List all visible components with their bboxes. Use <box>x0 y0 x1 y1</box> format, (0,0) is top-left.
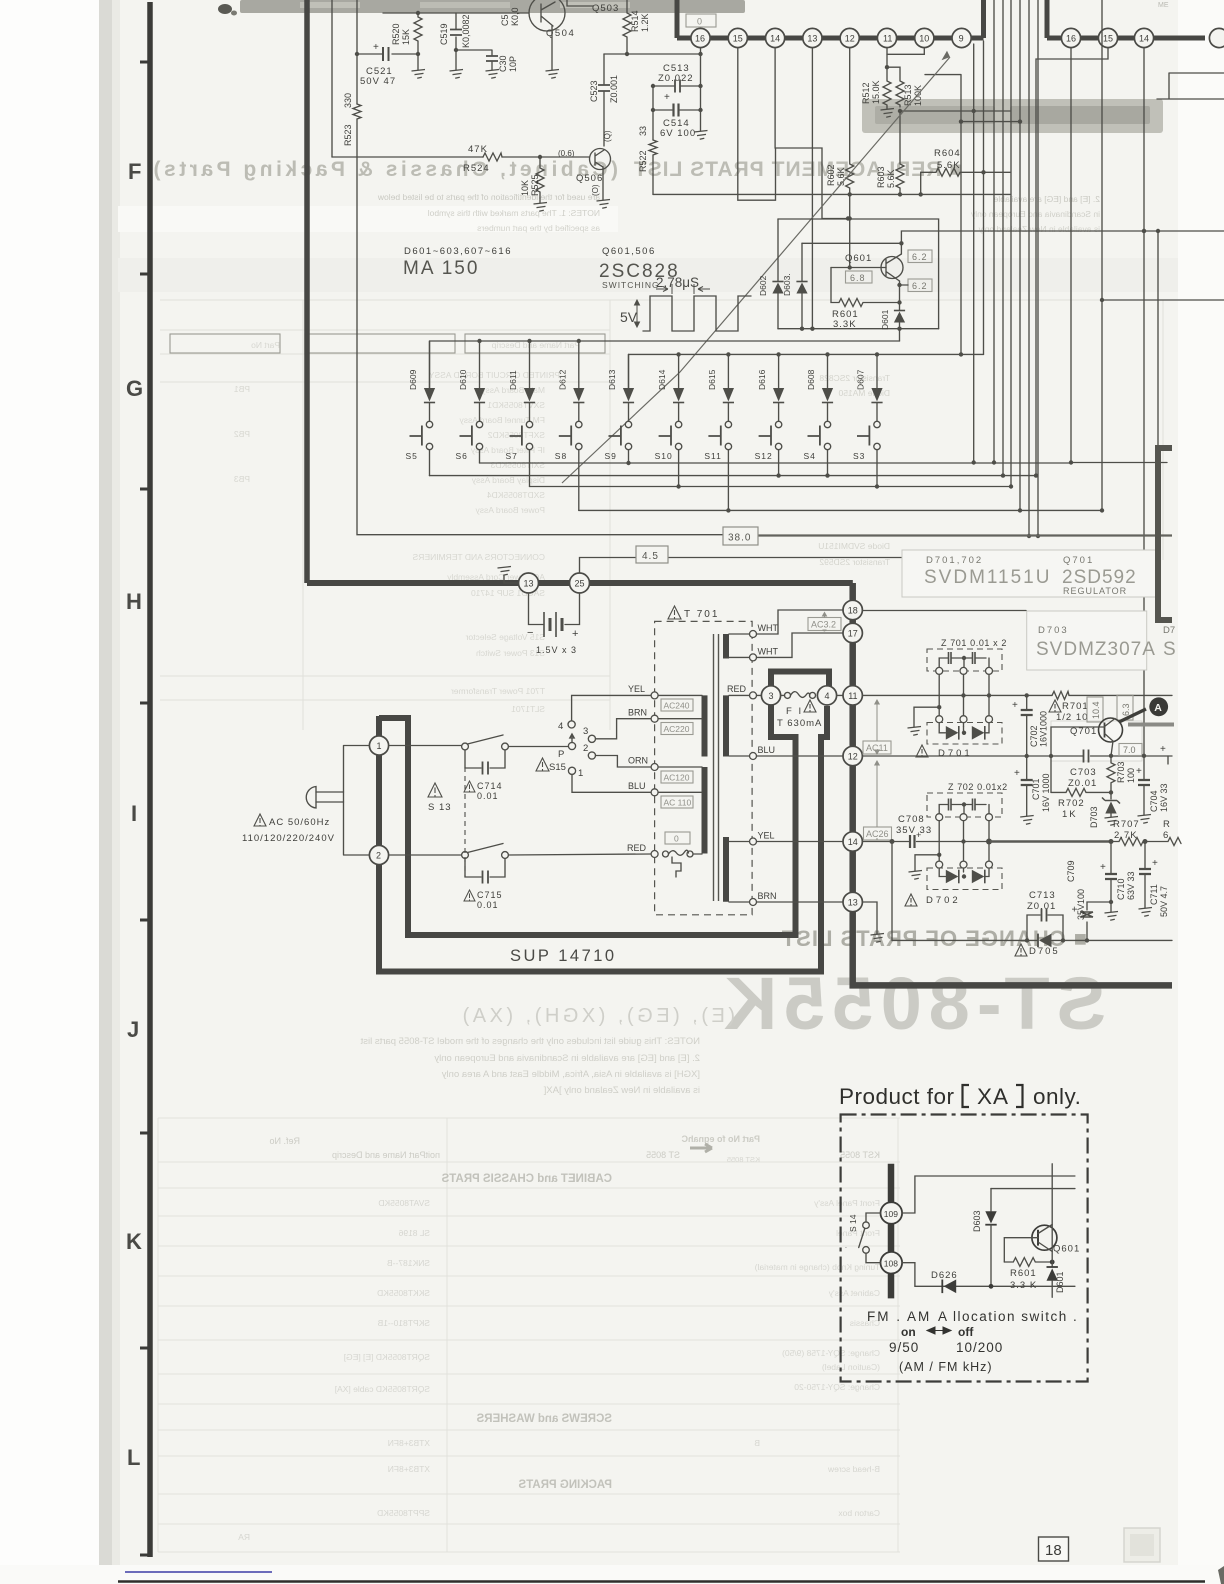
diagonal annotation arrow to pin 9 <box>562 51 950 483</box>
svg-text:K: K <box>126 1229 142 1254</box>
svg-text:13: 13 <box>524 579 534 589</box>
svg-text:10/200: 10/200 <box>956 1340 1003 1355</box>
svg-text:5.6K: 5.6K <box>836 167 846 186</box>
svg-text:10.4: 10.4 <box>1091 701 1101 719</box>
collector line to right edge <box>901 229 1224 254</box>
svg-text:SXFT8055KD2: SXFT8055KD2 <box>488 430 545 440</box>
svg-text:100: 100 <box>1126 768 1136 783</box>
svg-text:XA: XA <box>977 1084 1009 1109</box>
svg-text:J: J <box>127 1017 139 1042</box>
capacitor C715 0.01 <box>464 859 505 911</box>
svg-text:9/50: 9/50 <box>889 1340 919 1355</box>
svg-text:D607: D607 <box>856 369 866 390</box>
38.0 supply rail <box>723 527 1172 545</box>
primary terminal BLU <box>628 781 702 796</box>
svg-text:16V1000: 16V1000 <box>1039 711 1049 747</box>
svg-text:WHT: WHT <box>758 623 779 633</box>
resistor R603 5.6K <box>876 111 904 197</box>
svg-text:WHT: WHT <box>758 647 779 657</box>
svg-text:C713: C713 <box>1029 890 1056 901</box>
svg-text:D7: D7 <box>1163 625 1175 636</box>
svg-text:G: G <box>126 376 143 401</box>
power enclosure outer thick wiring <box>379 706 827 972</box>
svg-text:R524: R524 <box>463 163 490 174</box>
wire pin16 column <box>700 48 702 54</box>
tap box AC120 <box>661 771 693 783</box>
svg-text:Power Board Assy: Power Board Assy <box>475 505 545 515</box>
pin 12 <box>840 28 859 47</box>
svg-text:REGULATOR: REGULATOR <box>1063 586 1127 596</box>
wire pin13s to ground <box>862 902 884 942</box>
svg-text:R512: R512 <box>861 82 871 104</box>
label AC11 with arrows <box>863 700 891 754</box>
svg-text:3.3 K: 3.3 K <box>1010 1280 1037 1291</box>
page number 18 <box>1039 1537 1069 1561</box>
svg-text:6.8: 6.8 <box>850 273 866 283</box>
svg-text:108: 108 <box>884 1259 898 1269</box>
wire S3 to bus <box>875 450 879 489</box>
svg-text:Q504: Q504 <box>546 28 575 39</box>
wire pin14b long drop <box>1143 48 1145 756</box>
svg-text:50V 47: 50V 47 <box>360 76 396 87</box>
svg-text:2. [E] and [EG] are available: 2. [E] and [EG] are available in Scandin… <box>434 1053 700 1064</box>
white box behind Q701 <box>1051 721 1142 761</box>
svg-text:Q701: Q701 <box>1063 555 1094 566</box>
ground below R512 <box>881 107 895 117</box>
svg-text:+: + <box>664 92 670 103</box>
svg-text:AC220: AC220 <box>664 724 690 734</box>
svg-text:1.2K: 1.2K <box>640 13 650 32</box>
svg-text:is available in New Zealand on: is available in New Zealand only ]AX[ <box>543 1085 700 1096</box>
ghost table bottom-left <box>158 1118 900 1552</box>
svg-text:1: 1 <box>578 768 583 779</box>
pin 12s <box>843 746 862 765</box>
svg-text:SCREWS and WASHERS: SCREWS and WASHERS <box>476 1413 612 1425</box>
svg-text:2: 2 <box>583 743 588 754</box>
pin 14s <box>843 832 862 851</box>
value box 7.0 <box>1119 744 1142 756</box>
diode D601 XA <box>1047 1267 1066 1297</box>
svg-text:+: + <box>1014 768 1020 779</box>
svg-text:SL 8196: SL 8196 <box>398 1228 430 1238</box>
svg-text:PB2: PB2 <box>234 429 250 439</box>
wire pin14 route <box>775 48 848 219</box>
wire Q601 emitter <box>899 281 901 303</box>
pin 10 <box>915 28 934 47</box>
svg-text:noitPart Name and Descrip: noitPart Name and Descrip <box>332 1150 440 1160</box>
wire 108 to bottom rail <box>902 1263 915 1287</box>
svg-text:Change: SQY-1758 (9/50): Change: SQY-1758 (9/50) <box>782 1348 880 1358</box>
diode D614 <box>657 354 684 421</box>
pin 108 <box>881 1252 903 1274</box>
diode D608 <box>806 354 833 421</box>
resistor R525 10K <box>520 157 544 198</box>
svg-text:KST 8055: KST 8055 <box>840 1150 880 1160</box>
matrix lower bus 4 <box>579 509 1102 511</box>
svg-text:R604: R604 <box>934 148 961 159</box>
svg-text:R: R <box>1163 819 1170 830</box>
junction R525 <box>538 155 542 159</box>
diode matrix top bus B <box>629 352 984 388</box>
svg-text:38.0: 38.0 <box>728 533 751 544</box>
svg-text:−: − <box>527 627 533 639</box>
svg-text:XTB3+8FN: XTB3+8FN <box>388 1438 430 1448</box>
resistor R523 330 <box>343 93 361 157</box>
wire pin10 drop joins pin11 <box>887 48 924 55</box>
svg-text:6.2: 6.2 <box>912 281 928 291</box>
switch S11 <box>704 421 731 461</box>
svg-text:18: 18 <box>848 606 858 616</box>
svg-text:11: 11 <box>848 691 857 701</box>
svg-text:H: H <box>126 589 142 614</box>
svg-text:D626: D626 <box>931 1270 958 1281</box>
value box 6.3 <box>1117 695 1133 720</box>
svg-text:C30: C30 <box>498 55 508 72</box>
svg-text:R702: R702 <box>1058 798 1085 809</box>
pin 14 <box>766 28 785 47</box>
capacitor C523 Z0.001 <box>589 54 619 146</box>
capacitor C514 6V 100 <box>651 92 703 139</box>
XA dash-dot border <box>841 1115 1088 1382</box>
svg-text:(Q): (Q) <box>603 130 612 142</box>
S13 coupling dashed <box>464 767 466 877</box>
svg-text:+: + <box>1100 862 1106 873</box>
svg-text:110/120/220/240V: 110/120/220/240V <box>242 833 335 844</box>
diode D705 <box>1015 934 1060 957</box>
svg-text:C523: C523 <box>589 80 599 102</box>
svg-text:Transistor 2SD592: Transistor 2SD592 <box>819 557 890 567</box>
svg-text:Z 701 0.01 x 2: Z 701 0.01 x 2 <box>941 638 1007 648</box>
AC plug <box>306 746 369 856</box>
svg-text:C715: C715 <box>477 890 503 900</box>
matrix lower bus 1 <box>480 462 1072 464</box>
svg-text:FM . AM: FM . AM <box>867 1309 931 1324</box>
svg-text:BLU: BLU <box>628 781 646 791</box>
on off arrows <box>901 1325 974 1339</box>
svg-text:6.3: 6.3 <box>1121 703 1131 716</box>
ground below R520 <box>412 54 426 78</box>
svg-text:0: 0 <box>697 17 702 27</box>
svg-text:S10: S10 <box>655 451 673 461</box>
corner from battery bus down <box>850 580 853 586</box>
svg-text:11: 11 <box>883 34 892 44</box>
top banner ghost bar <box>240 0 745 13</box>
svg-text:1.5V x 3: 1.5V x 3 <box>536 645 577 655</box>
wire C513/C514 left column <box>652 86 654 140</box>
svg-text:D608: D608 <box>806 369 816 390</box>
wire pin16b long drop <box>1070 48 1072 463</box>
wire vertical C704 node <box>1136 754 1169 824</box>
capacitor C713 Z0.01 <box>1027 890 1063 940</box>
svg-text:R522: R522 <box>638 150 648 172</box>
wire node y111 <box>898 44 1010 465</box>
pin 14b <box>1134 28 1153 47</box>
selector S15 contact 4 <box>558 721 575 732</box>
svg-text:YEL: YEL <box>628 684 645 694</box>
switch S5 <box>406 421 433 461</box>
value box 6.8 <box>846 271 873 283</box>
svg-text:B: B <box>754 1438 760 1448</box>
wire S9 to bus <box>626 450 630 465</box>
pin 16b <box>1061 28 1080 47</box>
svg-text:SQRT8055KD [E] [EG]: SQRT8055KD [E] [EG] <box>344 1352 430 1362</box>
pin 109 <box>881 1202 903 1224</box>
bridge2 verticals <box>937 821 992 861</box>
power enclosure inner thick wiring <box>379 705 796 935</box>
wire rail y194 <box>653 193 1010 195</box>
svg-text:BRN: BRN <box>628 708 647 718</box>
tap box 0 <box>665 832 690 844</box>
svg-text:R520: R520 <box>391 23 401 45</box>
svg-text:ST 8055: ST 8055 <box>646 1150 680 1160</box>
faint box bottom right <box>1124 1528 1160 1562</box>
tap box AC220 <box>661 723 693 735</box>
svg-text:on: on <box>901 1325 916 1339</box>
pin 13s <box>843 892 862 911</box>
svg-text:D613: D613 <box>607 369 617 390</box>
svg-text:R701: R701 <box>1062 701 1089 712</box>
switch S10 <box>655 421 682 461</box>
svg-text:PRINTED CIRCUIT BORAD ASSY: PRINTED CIRCUIT BORAD ASSY <box>429 370 560 380</box>
capacitor C711 50V4.7 <box>1139 842 1170 918</box>
svg-text:+: + <box>572 628 578 640</box>
diode pair D701 <box>916 723 1002 760</box>
wire Q601 base loop <box>1004 1238 1038 1262</box>
resistor R601 XA 3.3K <box>1004 1258 1054 1291</box>
transistor Q701 <box>1070 718 1123 756</box>
resistor R702 1K <box>1051 788 1113 820</box>
wire S7 to bus <box>529 450 531 487</box>
svg-text:Part No fo egnahC: Part No fo egnahC <box>681 1134 760 1144</box>
svg-text:C701: C701 <box>1031 778 1041 800</box>
svg-text:BRN: BRN <box>758 891 777 901</box>
right edge cap stub <box>1160 744 1168 764</box>
svg-text:S15: S15 <box>549 762 566 773</box>
svg-text:D614: D614 <box>657 369 667 390</box>
svg-text:as specified by the part numbe: as specified by the part numbers <box>477 223 600 233</box>
selector S15 contact 3 <box>583 726 596 742</box>
svg-text:Carton box: Carton box <box>838 1508 880 1518</box>
label S13 <box>428 783 452 813</box>
diode D611 <box>508 341 535 421</box>
Z702 bridge terminals row1 <box>936 814 993 821</box>
svg-text:SPPT8055KD: SPPT8055KD <box>377 1508 430 1518</box>
svg-text:R523: R523 <box>343 124 353 146</box>
primary terminal ORN <box>628 756 702 771</box>
svg-text:1/2 10: 1/2 10 <box>1056 712 1088 723</box>
diode D603 <box>972 1189 997 1287</box>
svg-text:off: off <box>958 1325 974 1339</box>
secondary terminal BLU <box>729 745 843 760</box>
bottom right corner mark <box>1218 1566 1224 1584</box>
transformer T701 dashed box <box>655 606 753 915</box>
svg-text:in Scandinavia and European on: in Scandinavia and European only <box>970 209 1100 219</box>
T701 secondary winding bars <box>723 634 729 902</box>
svg-text:.: . <box>845 1243 847 1250</box>
svg-text:D701,702: D701,702 <box>926 555 983 566</box>
svg-text:R602: R602 <box>826 164 836 186</box>
svg-text:10K: 10K <box>520 180 530 196</box>
matrix lower bus 2 <box>430 475 1037 477</box>
svg-text:6.2: 6.2 <box>912 252 928 262</box>
svg-text:Z0.01: Z0.01 <box>1068 778 1097 789</box>
svg-text:S11: S11 <box>704 451 722 461</box>
diode D609 <box>408 341 435 421</box>
selector S15 pole P <box>558 734 576 760</box>
pin 9 <box>952 28 971 47</box>
wire S12 to bus <box>776 450 780 478</box>
svg-text:F I: F I <box>786 706 803 717</box>
Technics ghost band <box>862 99 1163 133</box>
faded 0 box <box>686 14 716 27</box>
svg-text:RED: RED <box>627 843 647 853</box>
diode D612 <box>557 341 584 421</box>
svg-text:YEL: YEL <box>758 831 775 841</box>
wire S8 to bus <box>578 450 580 511</box>
resistor R602 5.6K <box>826 48 854 197</box>
svg-text:15K: 15K <box>401 29 411 45</box>
svg-text:SWITCHING: SWITCHING <box>602 280 660 290</box>
svg-text:SXVT8055KD1: SXVT8055KD1 <box>487 400 545 410</box>
svg-text:SKPT810--1B: SKPT810--1B <box>377 1318 430 1328</box>
svg-text:S3: S3 <box>853 451 865 461</box>
svg-text:16V 33: 16V 33 <box>1159 783 1169 812</box>
wire S10 to bus <box>676 450 680 489</box>
svg-text:C702: C702 <box>1029 725 1039 747</box>
pin 11 <box>877 28 896 47</box>
pin 2 <box>369 845 388 864</box>
svg-text:S5: S5 <box>406 451 418 461</box>
svg-text:35V 33: 35V 33 <box>896 825 932 836</box>
wire S15-3 to BRN <box>596 719 652 739</box>
svg-text:[XGH] is available in Asia, Af: [XGH] is available in Asia, Africa, Midd… <box>442 1069 700 1080</box>
resistor R522 33 <box>638 126 657 194</box>
svg-text:T 701: T 701 <box>684 609 719 620</box>
svg-text:4: 4 <box>825 691 830 701</box>
Q601 bottom rail <box>778 328 939 330</box>
svg-text:15: 15 <box>1103 34 1113 44</box>
svg-text:13: 13 <box>848 898 858 908</box>
bridge verticals <box>937 674 991 715</box>
svg-text:2: 2 <box>376 851 381 861</box>
svg-text:15: 15 <box>733 34 743 44</box>
svg-text:100K: 100K <box>913 85 923 106</box>
svg-text:S12: S12 <box>755 451 773 461</box>
svg-text:2.7K: 2.7K <box>1114 830 1138 841</box>
svg-text:2. [E] and [EG] are available: 2. [E] and [EG] are available <box>993 194 1100 204</box>
svg-text:C703: C703 <box>1070 767 1097 778</box>
wire S5 to bus <box>429 450 431 476</box>
capacitor C710 63V33 <box>1100 842 1136 921</box>
svg-text:D612: D612 <box>557 369 567 390</box>
transistor Q503 stub <box>567 0 619 14</box>
svg-text:C708: C708 <box>898 814 925 825</box>
fuse F1 element <box>777 692 822 729</box>
svg-text:MA 150: MA 150 <box>403 258 479 279</box>
svg-text:ORN: ORN <box>628 756 648 766</box>
svg-text:SKKT8055KD: SKKT8055KD <box>377 1288 430 1298</box>
svg-text:Front Panel Ass'y: Front Panel Ass'y <box>813 1198 880 1208</box>
svg-text:■ REPLACEMENT PRATS LIST: ■ REPLACEMENT PRATS LIST <box>633 158 962 181</box>
svg-text:17: 17 <box>848 629 858 639</box>
capacitor C709 35V100 <box>1066 860 1111 942</box>
wire vertical x=357 upper <box>356 0 358 104</box>
svg-text:K0,0082: K0,0082 <box>461 14 471 48</box>
svg-text:Z0.022: Z0.022 <box>658 73 694 84</box>
wire S15-1 to BLU <box>572 774 651 792</box>
svg-text:16: 16 <box>695 34 705 44</box>
resistor R701 1/2 10 <box>1049 691 1089 723</box>
wire S14 lower to 108 <box>866 1253 881 1263</box>
switch S14 <box>845 1214 869 1253</box>
rail from pin14s with R707 <box>862 819 1181 846</box>
wire S14 upper to 109 <box>866 1213 881 1222</box>
svg-text:SVAT8055KD: SVAT8055KD <box>378 1198 430 1208</box>
svg-text:5V: 5V <box>620 309 638 325</box>
svg-text:S4: S4 <box>804 451 816 461</box>
svg-text:14: 14 <box>770 34 780 44</box>
svg-text:5.6K: 5.6K <box>886 169 896 188</box>
svg-text:Z 702 0.01x2: Z 702 0.01x2 <box>948 782 1008 792</box>
svg-text:S7: S7 <box>506 451 518 461</box>
thick board edge vertical at x=307 <box>304 0 310 583</box>
diode D610 <box>458 341 485 421</box>
wire pin12 column to Q601 base node <box>848 194 852 269</box>
svg-text:ME: ME <box>1158 2 1169 9</box>
svg-text:Q601: Q601 <box>845 253 872 264</box>
svg-text:AC3.2: AC3.2 <box>811 620 836 630</box>
svg-text:+: + <box>1152 858 1158 869</box>
svg-text:R525: R525 <box>530 174 540 196</box>
wire S15-4 to YEL <box>572 695 651 720</box>
svg-text:RED: RED <box>727 684 747 694</box>
pin 15 <box>728 28 747 47</box>
svg-text:+: + <box>1136 766 1142 777</box>
svg-text:D702: D702 <box>926 895 961 906</box>
svg-text:+: + <box>916 830 921 840</box>
svg-text:(Caution Label): (Caution Label) <box>822 1362 880 1372</box>
thick bus bar in XA box <box>888 1164 895 1299</box>
svg-text:330: 330 <box>343 93 353 108</box>
matrix lower bus 3 <box>530 486 1012 488</box>
switch S8 <box>555 421 582 461</box>
connector bus group 2 (pins 16-14) <box>1047 0 1205 38</box>
svg-text:A: A <box>1154 702 1162 714</box>
svg-text:2SD592: 2SD592 <box>1062 567 1137 588</box>
pin 13 battery <box>519 573 539 593</box>
svg-text:1: 1 <box>377 741 382 751</box>
wire 47K line <box>332 156 589 158</box>
svg-text:1K: 1K <box>1062 809 1078 820</box>
faint rows right of schematic centre <box>818 373 890 567</box>
fuse F1 circle 4 <box>817 686 836 705</box>
svg-text:33: 33 <box>638 126 648 136</box>
thick C-bus right edge <box>1158 448 1172 620</box>
diode pair D702 <box>905 868 1002 906</box>
diode D602 <box>758 219 784 329</box>
svg-text:L: L <box>127 1445 140 1470</box>
svg-text:Q506: Q506 <box>576 173 603 184</box>
capacitor C701 16V1000 <box>1014 754 1051 824</box>
ink speck <box>218 4 232 14</box>
capacitor C714 0.01 <box>464 750 505 801</box>
svg-text:R603: R603 <box>876 166 886 188</box>
capacitor C708 35V33 <box>892 814 937 848</box>
zener network Z702 <box>927 782 1008 817</box>
svg-text:D610: D610 <box>458 369 468 390</box>
wire vertical x=332 to 47K line <box>331 0 333 157</box>
white label box D701,702 SVDM1151U Q701 2SD592 <box>902 550 1158 597</box>
